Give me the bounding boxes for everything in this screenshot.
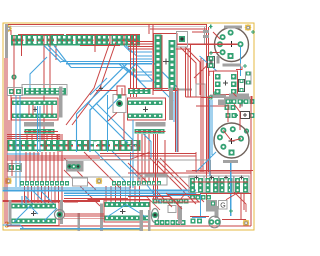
svg-text:G: G <box>220 203 225 210</box>
